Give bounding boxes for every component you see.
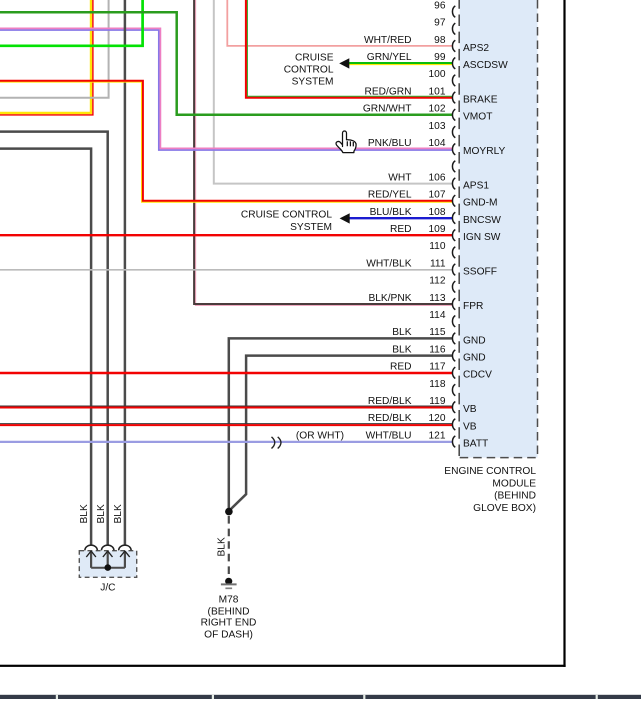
svg-text:102: 102 [429,104,446,115]
svg-text:111: 111 [430,258,446,269]
arrow to cruise control system (pin 108) [340,213,350,223]
svg-text:107: 107 [429,190,446,201]
svg-text:WHT/BLU: WHT/BLU [366,430,412,441]
wire RED/GRN pin 101 BRAKE (red) [246,0,452,98]
svg-text:GRN/YEL: GRN/YEL [367,52,412,63]
svg-text:WHT/RED: WHT/RED [364,35,412,46]
wire RED/YEL left-top (yellow) [0,0,91,113]
svg-text:(BEHIND: (BEHIND [494,491,536,502]
svg-text:98: 98 [434,35,446,46]
svg-text:120: 120 [429,413,446,424]
wire WHT (gray) upper-left [0,0,109,98]
svg-text:VB: VB [463,404,477,415]
wire PNK/BLU pin 104 MOYRLY (pink half) [0,28,452,148]
svg-text:CRUISE: CRUISE [295,53,334,64]
svg-text:VB: VB [463,421,477,432]
svg-text:ASCDSW: ASCDSW [463,60,508,71]
svg-text:108: 108 [429,207,446,218]
ECM dashed border [458,0,460,458]
svg-text:110: 110 [429,241,446,252]
svg-text:RED: RED [390,224,412,235]
svg-text:SYSTEM: SYSTEM [290,222,332,233]
J/C internal bus [91,567,125,569]
svg-text:CONTROL: CONTROL [284,65,334,76]
wire WHT pin 106 APS1 [214,0,452,184]
wire GRN/YEL pin 99 ASCDSW (green) [349,62,452,64]
wire RED/BLK pin 119 VB (black stripe) [0,405,452,407]
svg-text:114: 114 [429,310,446,321]
svg-text:SSOFF: SSOFF [463,267,497,278]
svg-text:96: 96 [434,0,446,11]
svg-text:121: 121 [429,430,446,441]
svg-text:BLK: BLK [392,327,411,338]
wire RED pin 117 CDCV [0,372,452,374]
svg-text:WHT: WHT [388,172,411,183]
svg-text:APS1: APS1 [463,181,489,192]
bottom table header bar [0,695,641,699]
wire GRN/WHT pin 102 VMOT [0,12,452,115]
wire WHT/BLK pin 111 SSOFF [0,269,452,271]
svg-text:ENGINE CONTROL: ENGINE CONTROL [444,466,536,477]
svg-text:VMOT: VMOT [463,112,492,123]
svg-text:GND: GND [463,335,486,346]
svg-text:CRUISE CONTROL: CRUISE CONTROL [241,210,332,221]
wire RED pin 109 IGN SW [0,234,452,236]
svg-text:SYSTEM: SYSTEM [292,77,334,88]
svg-text:115: 115 [429,327,446,338]
wire WHT/RED pin 98 APS2 [227,0,452,46]
svg-text:112: 112 [429,276,446,287]
svg-text:RIGHT END: RIGHT END [201,618,257,629]
break symbol on WHT/BLU wire [272,437,281,449]
svg-text:IGN SW: IGN SW [463,232,501,243]
svg-text:119: 119 [429,396,446,407]
svg-text:106: 106 [429,172,446,183]
wire WHT/BLU pin 121 BATT [0,441,452,443]
svg-text:GRN/WHT: GRN/WHT [363,104,412,115]
svg-text:BNCSW: BNCSW [463,215,501,226]
wire RED/YEL left-top (red stripe) [0,0,93,115]
svg-text:117: 117 [429,362,446,373]
wire BLK 3 (left to J/C) [0,149,91,546]
svg-text:103: 103 [429,121,446,132]
svg-text:APS2: APS2 [463,43,489,54]
svg-text:RED/BLK: RED/BLK [368,396,412,407]
wire BLK/PNK pin 113 FPR (dark) [194,0,452,304]
svg-text:BLK: BLK [392,344,411,355]
wire BLK dashed to ground M78 [228,516,230,575]
svg-text:PNK/BLU: PNK/BLU [368,138,412,149]
svg-text:113: 113 [429,293,446,304]
svg-text:118: 118 [429,379,446,390]
svg-text:BLK: BLK [79,504,90,523]
wire GRN/YEL pin 99 ASCDSW (yellow stripe) [349,64,452,66]
svg-text:RED: RED [390,362,412,373]
wire RED/BLK pin 120 VB (red) [0,424,452,426]
junction node (GND wires) [225,508,233,516]
svg-text:OF DASH): OF DASH) [204,630,253,641]
svg-text:RED/BLK: RED/BLK [368,413,412,424]
wire BLK/PNK pin 113 FPR (pink stripe) [196,0,453,305]
wire GRN (bright) to top edge [0,0,143,46]
ground M78 [221,578,237,589]
ECM caption [444,466,536,514]
svg-text:MOYRLY: MOYRLY [463,146,505,157]
svg-text:BLU/BLK: BLU/BLK [370,207,412,218]
wire RED/BLK pin 119 VB (red) [0,407,452,409]
svg-text:BLK/PNK: BLK/PNK [368,293,411,304]
J/C pin symbol 1 [85,545,98,568]
cruise control system label (pin 108) [241,210,332,233]
svg-text:(OR WHT): (OR WHT) [296,430,344,441]
svg-text:RED/YEL: RED/YEL [368,190,412,201]
svg-text:97: 97 [434,18,446,29]
wire BLK pin 116 GND [230,356,452,510]
svg-text:BLK: BLK [96,504,107,523]
wire BLK pin 115 GND [229,338,452,511]
svg-text:116: 116 [429,344,446,355]
wire PNK/BLU pin 104 MOYRLY (blue half) [0,30,452,150]
J/C internal node [105,564,112,571]
mouse hand cursor [336,131,356,153]
svg-text:M78: M78 [219,594,239,605]
engine control module U1 (connector box) [460,0,538,458]
arrow to cruise control system (pin 99) [339,58,349,68]
svg-text:GND-M: GND-M [463,198,498,209]
svg-text:BRAKE: BRAKE [463,95,498,106]
wire RED/YEL pin 107 GND-M (yellow stripe) [0,82,452,202]
wire BLK 2 (left to J/C) [0,132,108,546]
pin numbers [429,0,446,441]
svg-text:101: 101 [429,86,446,97]
ECM pin sockets [452,6,455,447]
svg-text:MODULE: MODULE [492,478,536,489]
svg-text:99: 99 [434,52,446,63]
svg-text:GLOVE BOX): GLOVE BOX) [473,503,536,514]
ground M78 caption [201,594,257,640]
wire colour labels [363,35,412,442]
J/C pin symbol 2 [101,545,114,568]
svg-text:109: 109 [429,224,446,235]
svg-text:BLK: BLK [217,537,228,556]
wire RED/GRN pin 101 BRAKE (green stripe) [247,0,452,96]
svg-text:WHT/BLK: WHT/BLK [366,258,411,269]
junction connector J/C box [79,551,136,578]
svg-text:J/C: J/C [100,583,115,594]
svg-text:BATT: BATT [463,439,488,450]
svg-text:FPR: FPR [463,301,483,312]
J/C pin symbol 3 [119,545,132,568]
ECM signal names [463,43,508,450]
svg-text:(BEHIND: (BEHIND [208,607,250,618]
svg-text:GND: GND [463,353,486,364]
svg-text:BLK: BLK [113,504,124,523]
wire BLK vertical 1 (top to J/C) [124,0,127,546]
svg-text:100: 100 [429,69,446,80]
wire RED/YEL pin 107 GND-M (red) [0,81,452,201]
wire RED/BLK pin 120 VB (black stripe) [0,423,452,425]
svg-text:RED/GRN: RED/GRN [365,86,412,97]
svg-text:CDCV: CDCV [463,370,492,381]
svg-text:104: 104 [429,138,446,149]
wire BLU/BLK pin 108 BNCSW [349,217,452,219]
cruise control system label (pin 99) [284,53,334,88]
